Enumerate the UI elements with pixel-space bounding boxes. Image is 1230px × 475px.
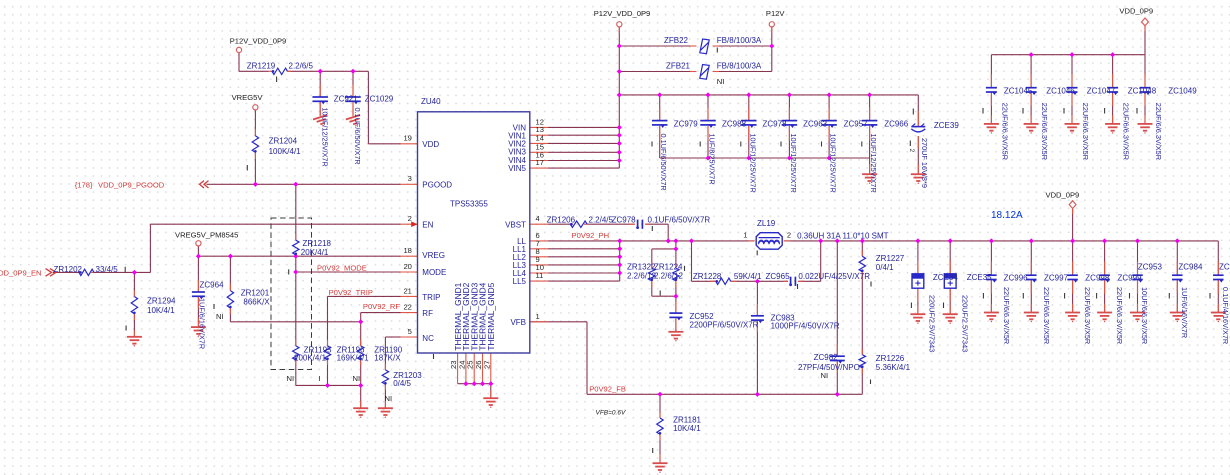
svg-text:ZR1226: ZR1226 [876, 354, 905, 363]
svg-text:27: 27 [482, 361, 491, 369]
svg-text:MODE: MODE [422, 268, 446, 277]
wire ZC983 branch to FB [756, 281, 758, 394]
svg-text:5: 5 [408, 327, 412, 336]
svg-text:0.022UF/4/25V/X7R: 0.022UF/4/25V/X7R [798, 272, 870, 281]
svg-text:3: 3 [408, 174, 412, 183]
svg-text:5.36K/4/1: 5.36K/4/1 [876, 363, 911, 372]
svg-text:VREG5V: VREG5V [232, 93, 264, 102]
input bank capacitor ZC966 [862, 120, 878, 122]
wire divider column ZR1218 / ZR1195 [295, 184, 297, 385]
label ZR1181 [673, 415, 701, 433]
capacitor ZC982 [830, 355, 845, 357]
port P12V_VDD_0P9 left [236, 47, 241, 52]
resistor ZR1204 [252, 136, 258, 153]
ferrite bead ZFB21 [700, 65, 709, 80]
svg-text:VDD_0P9_PGOOD: VDD_0P9_PGOOD [98, 180, 165, 189]
label ZR1294 [147, 297, 176, 315]
svg-text:NC: NC [422, 334, 434, 343]
svg-text:18: 18 [403, 246, 411, 255]
svg-text:ZC996: ZC996 [1004, 273, 1029, 282]
top-right cap ZC1049 [1140, 87, 1151, 89]
svg-text:PGOOD: PGOOD [422, 180, 452, 189]
capacitor ZC92x [312, 96, 328, 98]
resistor ZR1228 [716, 278, 731, 284]
svg-text:22UF/6/6.3V/X5R: 22UF/6/6.3V/X5R [1081, 103, 1090, 160]
svg-text:FB/8/100/3A: FB/8/100/3A [717, 36, 762, 45]
svg-text:ZR1204: ZR1204 [269, 137, 298, 146]
label ZR1228 [693, 272, 762, 281]
ground under ZR1181 [653, 463, 668, 473]
label ZR1219 [247, 61, 314, 70]
label ZR1227 [876, 254, 905, 272]
svg-text:22UF/6/6.3V/X5R: 22UF/6/6.3V/X5R [1115, 287, 1124, 344]
svg-text:ZC988: ZC988 [722, 119, 747, 128]
svg-text:RF: RF [422, 309, 433, 318]
ground under thermal pad [483, 398, 498, 408]
svg-text:10UF/6/6.3V/X5R: 10UF/6/6.3V/X5R [1140, 287, 1149, 344]
pin visibility tick marks [125, 48, 1210, 454]
svg-text:VBST: VBST [505, 220, 526, 229]
svg-text:FB/8/100/3A: FB/8/100/3A [717, 62, 762, 71]
wire net P12V_VDD_0P9 left branch [239, 53, 401, 144]
svg-text:ZC963: ZC963 [803, 119, 828, 128]
svg-text:10UF/12/25V/X7R: 10UF/12/25V/X7R [869, 134, 878, 193]
svg-text:11: 11 [536, 271, 544, 280]
label ZR1196 [337, 345, 370, 362]
svg-text:2.2/6/12: 2.2/6/12 [627, 271, 656, 280]
wire output ceramic cap branches [991, 241, 1218, 312]
input bank capacitor ZC978 [741, 120, 757, 122]
resistor ZR1206 [570, 221, 587, 227]
pin numbers ZL19 [743, 230, 791, 239]
svg-text:22UF/6/6.3V/X5R: 22UF/6/6.3V/X5R [1000, 103, 1009, 160]
svg-text:220UF/2.5V/7343: 220UF/2.5V/7343 [960, 295, 969, 352]
svg-text:P0V92_MODE: P0V92_MODE [317, 263, 367, 272]
offpage connector VDD_0P9_PGOOD chevrons [200, 181, 209, 188]
resistor ZR1224 [673, 268, 679, 281]
wire NC pin 5 to ZR1203 [385, 337, 400, 408]
wire THERMAL_GND tie to ground [458, 384, 491, 398]
svg-text:ZC1045: ZC1045 [1004, 87, 1033, 96]
svg-text:0.36UH 31A 11.0*10 SMT: 0.36UH 31A 11.0*10 SMT [797, 232, 889, 241]
label ZC983 [771, 313, 840, 330]
port VDD_0P9 top right diamond [1142, 18, 1149, 26]
pin marks ZCE39 [908, 109, 915, 153]
wire net VDD_0P9 output row [784, 208, 1219, 241]
ground top-right bank x1112 [1105, 124, 1120, 134]
input bank capacitor ZC963 [782, 120, 798, 122]
ground under ZR1190 column [353, 408, 368, 418]
svg-text:866K/X: 866K/X [243, 297, 270, 306]
svg-text:ZC965: ZC965 [766, 272, 791, 281]
svg-text:18.12A: 18.12A [991, 210, 1023, 221]
wire input bus P12V_VDD_0P9 [619, 95, 918, 174]
resistor ZR1195 [293, 346, 299, 360]
label ZR1226 [876, 354, 911, 372]
label ZR1206 row [547, 216, 711, 225]
svg-text:ZR1206: ZR1206 [547, 216, 576, 225]
svg-text:270UF 16V/8*9: 270UF 16V/8*9 [920, 138, 929, 188]
svg-text:33/4/5: 33/4/5 [96, 265, 119, 274]
svg-text:1000PF/4/50V/X7R: 1000PF/4/50V/X7R [771, 321, 840, 330]
label ZFB22 [664, 36, 762, 45]
ground output cap bank x1031 [1024, 313, 1039, 323]
ground under ZC1029 [346, 115, 363, 129]
label ZC952 [690, 312, 759, 330]
svg-text:ZR1218: ZR1218 [303, 239, 332, 248]
ground under ZCE39 [911, 174, 926, 184]
svg-text:P0V92_FB: P0V92_FB [589, 384, 626, 393]
svg-text:0.1UF/6/50V/X7R: 0.1UF/6/50V/X7R [648, 216, 711, 225]
wire ZR132/ZR122 snubber sub-network [652, 241, 676, 331]
resistor ZR1196 [324, 346, 330, 360]
wire ZR1181 branch to ground [659, 394, 661, 462]
svg-text:LL5: LL5 [513, 277, 527, 286]
top-right cap ZC1046 [1026, 87, 1037, 89]
label ZR1203 [393, 371, 422, 388]
svg-text:22: 22 [403, 303, 411, 312]
wire ferrite rows ZFB22 ZFB21 to P12V [619, 27, 772, 71]
capacitor ZC976 series on VBST [637, 220, 639, 229]
svg-text:P12V_VDD_0P9: P12V_VDD_0P9 [594, 9, 651, 18]
svg-text:VFB=0.6V: VFB=0.6V [596, 410, 626, 417]
ground under ZR1294 [127, 337, 142, 347]
wire net VDD_0P9 top-right bank [991, 25, 1145, 123]
op-amp controller U1 ZU40 TPS53355 body [418, 112, 530, 353]
ground under ZCE output cap 1 [910, 314, 925, 324]
svg-text:{178}: {178} [75, 180, 93, 189]
svg-text:ZR1228: ZR1228 [693, 272, 722, 281]
svg-text:ZC982: ZC982 [814, 353, 839, 362]
svg-text:20: 20 [403, 262, 411, 271]
output cap ZC954 [1213, 274, 1224, 276]
ground output cap bank x1218 [1211, 313, 1226, 323]
svg-text:22UF/6/6.3V/X5R: 22UF/6/6.3V/X5R [1002, 287, 1011, 344]
ferrite bead ZFB22 [700, 39, 709, 54]
svg-text:10UF/12/25V/X7R: 10UF/12/25V/X7R [748, 134, 757, 193]
resistor ZR1202 [79, 269, 94, 275]
capacitor ZC983 [751, 315, 764, 317]
svg-text:22UF/6/6.3V/X5R: 22UF/6/6.3V/X5R [1040, 103, 1049, 160]
top-right cap ZC1045 [986, 87, 997, 89]
svg-text:200K/4/1: 200K/4/1 [294, 354, 327, 363]
svg-text:NI: NI [821, 371, 829, 380]
svg-text:ZC1047: ZC1047 [1087, 87, 1116, 96]
label ZL19 [757, 219, 889, 241]
svg-text:ZC966: ZC966 [884, 119, 909, 128]
svg-text:ZR1224: ZR1224 [654, 262, 683, 271]
top-right cap ZC1048 [1107, 87, 1118, 89]
resistor ZR1203 [382, 370, 388, 384]
wire ZR1201 branch [229, 256, 231, 322]
svg-text:TRIP: TRIP [422, 293, 440, 302]
svg-text:ZC957: ZC957 [844, 119, 869, 128]
resistor ZR1322 [649, 268, 655, 281]
wire ZC964 branch [197, 256, 199, 326]
svg-text:ZC964: ZC964 [200, 281, 225, 290]
resistor ZR1181 [657, 418, 663, 434]
svg-text:ZCE39: ZCE39 [934, 121, 959, 130]
svg-text:27PF/4/50V/NPO: 27PF/4/50V/NPO [798, 363, 860, 372]
input bank capacitor ZC988 [700, 120, 716, 122]
electrolytic capacitor output 2 [944, 274, 956, 288]
svg-text:ZC997: ZC997 [1044, 273, 1069, 282]
ground under ZC952 [668, 332, 683, 342]
svg-text:14: 14 [536, 133, 544, 142]
svg-text:ZFB22: ZFB22 [664, 36, 689, 45]
svg-text:VDD_0P9: VDD_0P9 [1046, 191, 1080, 200]
resistor ZR1227 [859, 256, 865, 271]
svg-text:ZCE34: ZCE34 [933, 273, 958, 282]
svg-text:22UF/6/6.3V/X5R: 22UF/6/6.3V/X5R [1154, 103, 1163, 160]
svg-text:VDD: VDD [422, 140, 439, 149]
label ZR1195 [294, 345, 332, 362]
svg-text:NI: NI [287, 374, 295, 383]
svg-text:ZC978: ZC978 [763, 119, 788, 128]
svg-text:NI: NI [385, 394, 393, 403]
svg-text:2: 2 [787, 230, 791, 239]
ground top-right bank x1072 [1065, 124, 1080, 134]
svg-text:1UF/6/16V/X7R: 1UF/6/16V/X7R [198, 298, 207, 349]
svg-text:1: 1 [536, 312, 540, 321]
svg-text:NI: NI [717, 77, 725, 86]
svg-text:1: 1 [743, 230, 747, 239]
label ZC965 [766, 272, 871, 281]
svg-text:ZR1294: ZR1294 [147, 297, 176, 306]
capacitor ZC965 series [790, 277, 792, 286]
ground under ZR1203 [378, 408, 393, 418]
NI not-installed labels [216, 312, 392, 403]
svg-text:2.2/6/12: 2.2/6/12 [654, 271, 683, 280]
wire net P0V92_RF long row [230, 313, 400, 322]
wire net VREG5V [254, 110, 256, 184]
svg-text:2: 2 [408, 214, 412, 223]
electrolytic capacitor ZCE39 [911, 124, 925, 132]
svg-text:VDD_0P9: VDD_0P9 [1119, 7, 1153, 16]
port P12V [769, 22, 774, 27]
svg-text:1UF/6/16V/X7R: 1UF/6/16V/X7R [1180, 287, 1189, 338]
wire net P12V_VDD_0P9 center column to VIN pins [548, 27, 619, 168]
port VREG5V [253, 105, 258, 110]
svg-text:220UF/2.5V/7343: 220UF/2.5V/7343 [928, 295, 937, 352]
IC thermal pad pin names rotated [453, 282, 496, 350]
svg-text:ZC1046: ZC1046 [1046, 87, 1075, 96]
svg-text:2: 2 [908, 149, 915, 153]
ground under ZC964 [191, 327, 206, 337]
output cap ZC998 [1067, 274, 1078, 276]
capacitor ZC1029 [345, 96, 361, 98]
svg-text:0.1UF/6/50V/X7R: 0.1UF/6/50V/X7R [353, 108, 362, 165]
wire net VDD_0P9_EN to pin 2 [53, 224, 401, 272]
pin numbers U1 thermal 23-27 rotated [449, 361, 491, 369]
resistor ZR1190 [358, 346, 364, 360]
output cap ZC984 [1172, 274, 1183, 276]
svg-text:ZR1227: ZR1227 [876, 254, 905, 263]
labels top-right cap bank [1000, 87, 1197, 160]
labels output electrolytics [928, 273, 993, 352]
svg-text:NI: NI [353, 374, 361, 383]
ground output cap bank x1177 [1170, 313, 1185, 323]
svg-text:10UF/12/25V/X7R: 10UF/12/25V/X7R [789, 134, 798, 193]
svg-text:TPS53355: TPS53355 [450, 200, 488, 209]
svg-text:ZC952: ZC952 [690, 312, 715, 321]
svg-text:P12V: P12V [766, 9, 786, 18]
svg-text:ZC1049: ZC1049 [1168, 87, 1197, 96]
labels top-left cap pair [320, 95, 393, 167]
svg-text:ZR1202: ZR1202 [54, 265, 83, 274]
svg-text:20K/4/1: 20K/4/1 [301, 248, 329, 257]
svg-text:0/4/1: 0/4/1 [876, 263, 894, 272]
svg-text:VREG5V_PM8545: VREG5V_PM8545 [175, 231, 238, 240]
svg-text:VREG: VREG [422, 251, 445, 260]
pin stubs U1 ZU40 [401, 127, 549, 383]
svg-text:EN: EN [422, 220, 433, 229]
net label {178} VDD_0P9_PGOOD [75, 180, 165, 189]
svg-text:VIN5: VIN5 [508, 164, 526, 173]
svg-text:ZR1201: ZR1201 [241, 288, 270, 297]
output cap ZC997 [1026, 274, 1037, 276]
wire net VDD_0P9_PGOOD row to pin 3 [207, 183, 401, 185]
label ZR1224 [654, 262, 683, 280]
ground output cap bank x1137 [1130, 313, 1145, 323]
svg-text:10K/4/1: 10K/4/1 [673, 424, 701, 433]
svg-text:ZCE35: ZCE35 [967, 273, 992, 282]
capacitor ZC964 [192, 291, 205, 293]
svg-text:10K/4/1: 10K/4/1 [147, 306, 175, 315]
label ZR1201 [241, 288, 271, 306]
label ZR1202 [54, 265, 119, 274]
wire ZR1227 ZR1226 branch [861, 241, 863, 394]
wire VBST snubber row pin 4 [548, 224, 668, 241]
resistor ZR1294 [131, 297, 137, 314]
output cap ZC999 [1099, 274, 1110, 276]
svg-text:100K/4/1: 100K/4/1 [269, 147, 302, 156]
wire ZR1228 ZC965 feedforward branch [692, 241, 821, 281]
pin numbers U1 right [536, 117, 544, 320]
label ZR1322 [627, 263, 656, 281]
svg-text:P0V92_TRIP: P0V92_TRIP [329, 288, 373, 297]
labels output ceramic bank [1002, 263, 1230, 345]
label ZC964 [198, 281, 224, 350]
svg-text:ZR1181: ZR1181 [673, 415, 701, 424]
port VREG5V_PM8545 [196, 241, 201, 246]
label ZR1204 [269, 137, 302, 156]
svg-text:187K/X: 187K/X [374, 354, 401, 363]
svg-text:THERMAL_GND5: THERMAL_GND5 [486, 282, 496, 350]
svg-text:169K/4/1: 169K/4/1 [337, 354, 370, 363]
label ZR1218 [301, 239, 332, 257]
wire output electrolytic branches [918, 241, 950, 314]
ground top-right bank x1031 [1024, 124, 1039, 134]
ground under ZC92x [313, 115, 330, 129]
svg-text:ZL19: ZL19 [757, 219, 776, 228]
ground top-right bank x991 [984, 124, 999, 134]
ground top-right bank x1145 [1138, 124, 1153, 134]
svg-text:10UF/12/25V/X7R: 10UF/12/25V/X7R [829, 134, 838, 193]
ground output cap bank x991 [984, 313, 999, 323]
IC right pin names [505, 124, 526, 328]
wire net P0V92_PH phase row to ZL19 [620, 240, 755, 242]
resistor ZR1219 [272, 68, 288, 74]
svg-text:1UF/8/25V/X7R: 1UF/8/25V/X7R [708, 134, 717, 185]
svg-text:ZC999: ZC999 [1118, 273, 1143, 282]
top-right cap ZC1047 [1067, 87, 1078, 89]
wire ZC982 branch [836, 241, 838, 394]
svg-text:0/4/5: 0/4/5 [393, 379, 411, 388]
svg-text:ZC953: ZC953 [1138, 263, 1163, 272]
dashed selection box around ZR1218/ZR1195 [271, 218, 312, 370]
svg-text:ZC979: ZC979 [674, 119, 699, 128]
label ZC982 [798, 353, 860, 380]
svg-text:ZFB21: ZFB21 [666, 62, 691, 71]
output cap ZC996 [986, 274, 997, 276]
svg-text:ZC1048: ZC1048 [1128, 87, 1157, 96]
svg-text:ZC921: ZC921 [334, 95, 359, 104]
svg-text:17: 17 [536, 158, 544, 167]
wire net P0V92_MODE to pin 20 [296, 271, 401, 273]
svg-text:22UF/6/6.3V/X5R: 22UF/6/6.3V/X5R [1042, 287, 1051, 344]
wire resistor bottom rail to ground [296, 322, 361, 408]
svg-text:VDD_0P9_EN: VDD_0P9_EN [0, 269, 42, 278]
ground input cap rail [862, 174, 877, 184]
svg-text:ZR1219: ZR1219 [247, 61, 276, 70]
resistor ZR1226 [859, 355, 865, 368]
svg-text:VFB: VFB [510, 318, 526, 327]
ground output cap bank x1104 [1097, 313, 1112, 323]
svg-text:ZC954: ZC954 [1219, 263, 1230, 272]
ground under ZCE output cap 2 [943, 314, 958, 324]
svg-text:21: 21 [403, 286, 411, 295]
output cap ZC953 [1132, 274, 1143, 276]
IC left pin names [422, 140, 452, 343]
electrolytic capacitor output 1 [912, 274, 924, 288]
label ZFB21 [666, 62, 762, 71]
svg-text:ZC998: ZC998 [1085, 273, 1110, 282]
wire net VREG5V_PM8545 row to pin 18 [198, 246, 400, 256]
wire net P0V92_TRIP to pin 21 and ZR1196 [328, 296, 401, 385]
wire net P0V92_FB row [530, 322, 863, 395]
svg-text:NI: NI [216, 312, 224, 321]
port VDD_0P9 lower diamond [1069, 201, 1076, 209]
svg-text:P12V_VDD_0P9: P12V_VDD_0P9 [230, 36, 287, 45]
label ZCE39 [920, 121, 959, 188]
svg-text:22UF/6/6.3V/X5R: 22UF/6/6.3V/X5R [1122, 103, 1131, 160]
svg-text:P0V92_RF: P0V92_RF [363, 302, 401, 311]
svg-text:22UF/6/6.3V/X5R: 22UF/6/6.3V/X5R [1083, 287, 1092, 344]
EN pin arrow at pin 2 [411, 221, 417, 227]
svg-text:ZC978: ZC978 [612, 216, 637, 225]
svg-text:10UF/12/25V/X7R: 10UF/12/25V/X7R [320, 108, 329, 167]
wire LL pin rows and bus [548, 241, 620, 281]
svg-text:ZC1029: ZC1029 [365, 95, 394, 104]
port P12V_VDD_0P9 center [617, 22, 622, 27]
svg-text:4: 4 [536, 214, 540, 223]
offpage connector VDD_0P9_EN chevrons [46, 269, 57, 277]
svg-text:I: I [319, 374, 321, 383]
svg-text:2.2/4/5: 2.2/4/5 [589, 216, 614, 225]
label ZR1190 [374, 345, 402, 362]
svg-text:0.1UF/4/16V/X7R: 0.1UF/4/16V/X7R [1221, 287, 1230, 344]
inductor ZL19 [756, 233, 782, 250]
capacitor ZC952 [669, 312, 682, 314]
pin numbers U1 left [403, 134, 411, 336]
svg-text:ZU40: ZU40 [421, 97, 441, 106]
IC name labels [421, 97, 488, 209]
resistor ZR1218 [293, 240, 299, 255]
svg-text:59K/4/1: 59K/4/1 [734, 272, 762, 281]
svg-text:19: 19 [403, 134, 411, 143]
resistor ZR1201 [227, 291, 233, 308]
